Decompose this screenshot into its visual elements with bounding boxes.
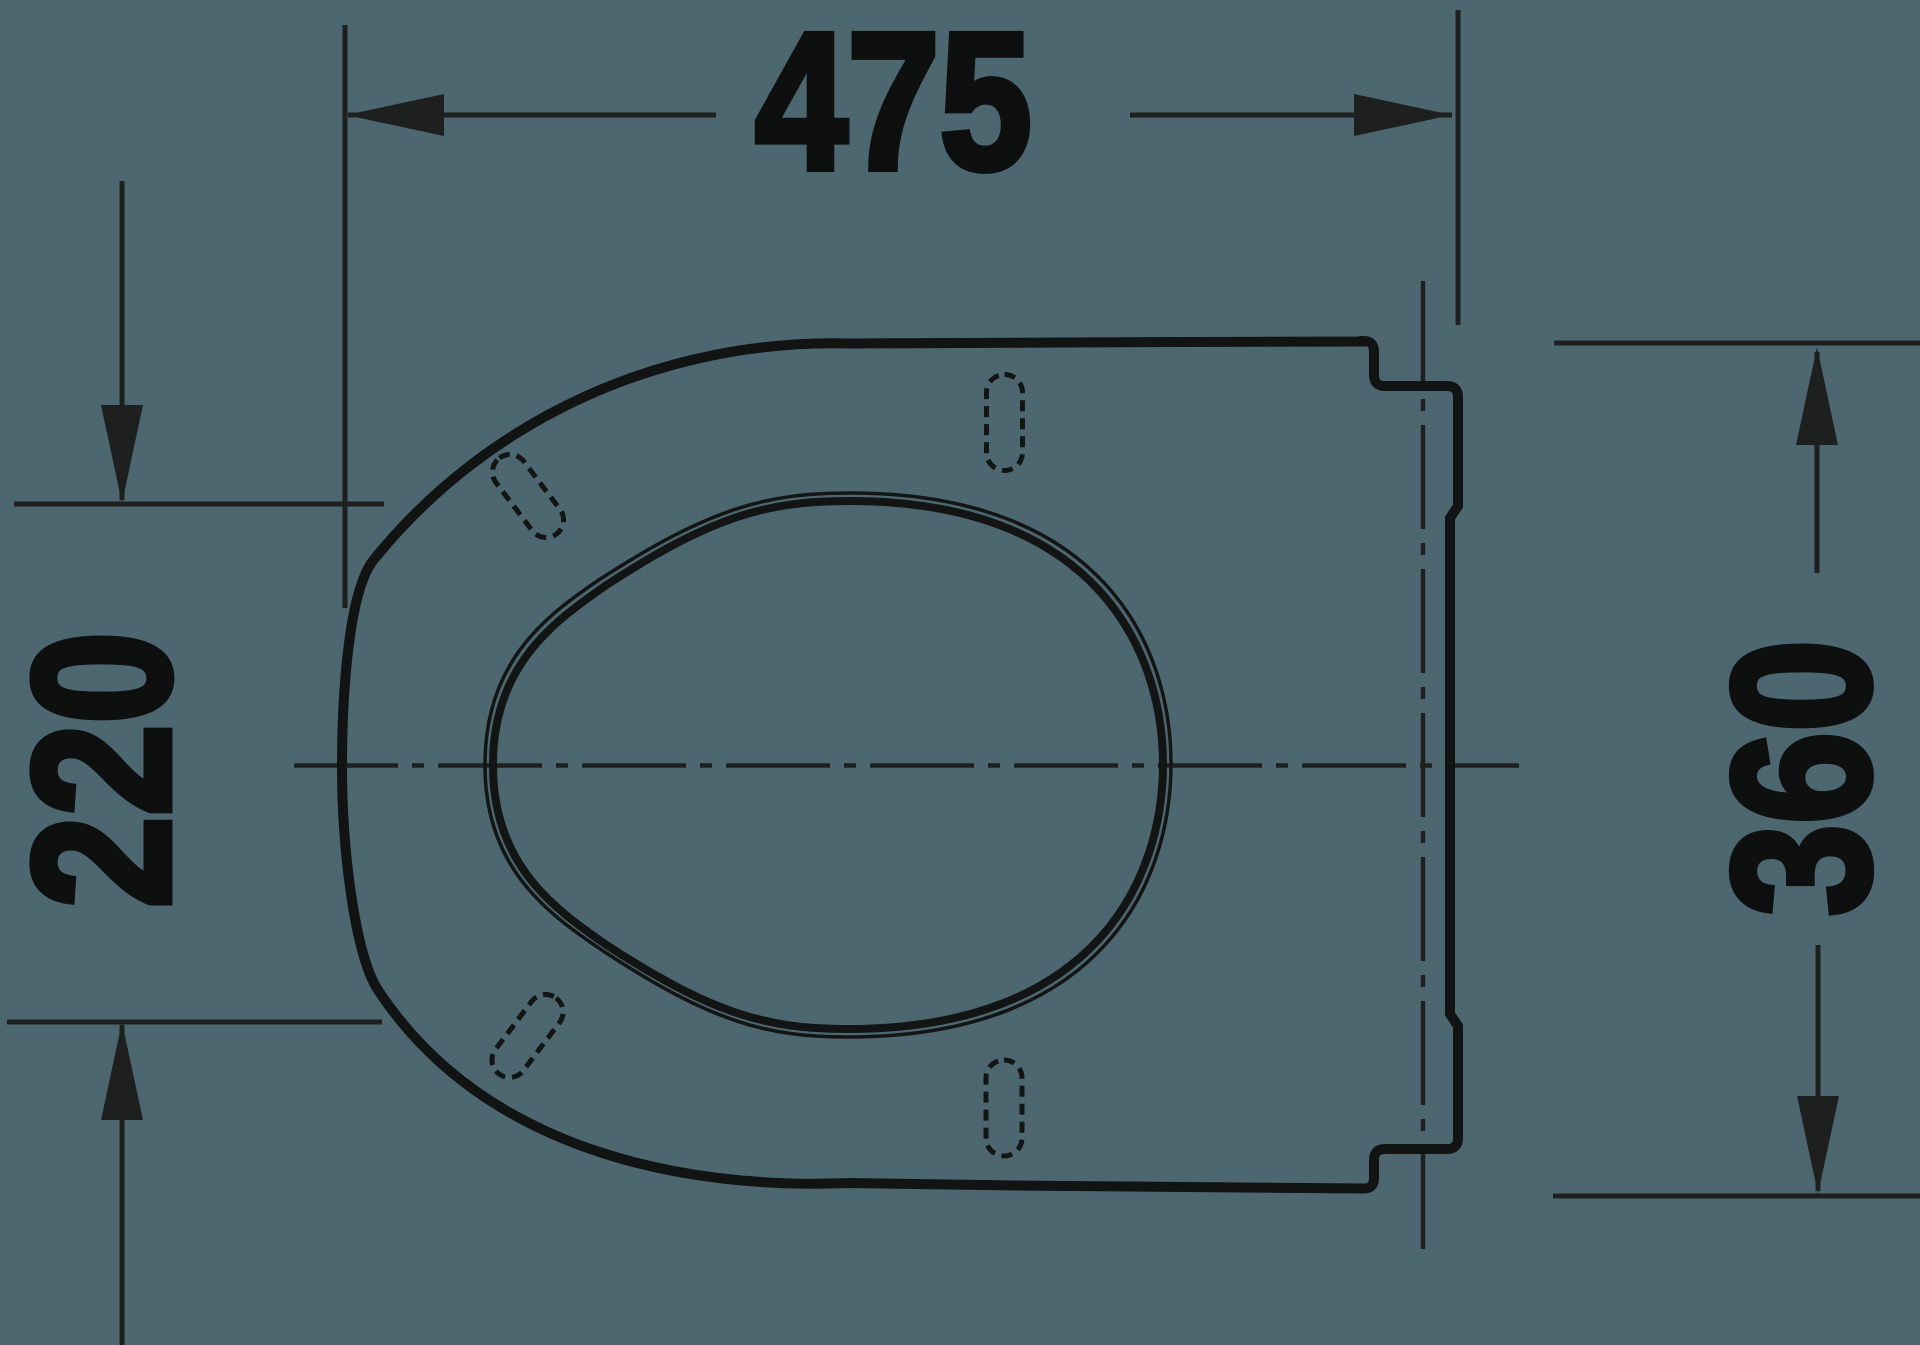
svg-text:220: 220 bbox=[0, 632, 211, 909]
svg-text:475: 475 bbox=[755, 0, 1032, 211]
svg-text:360: 360 bbox=[1693, 640, 1911, 917]
